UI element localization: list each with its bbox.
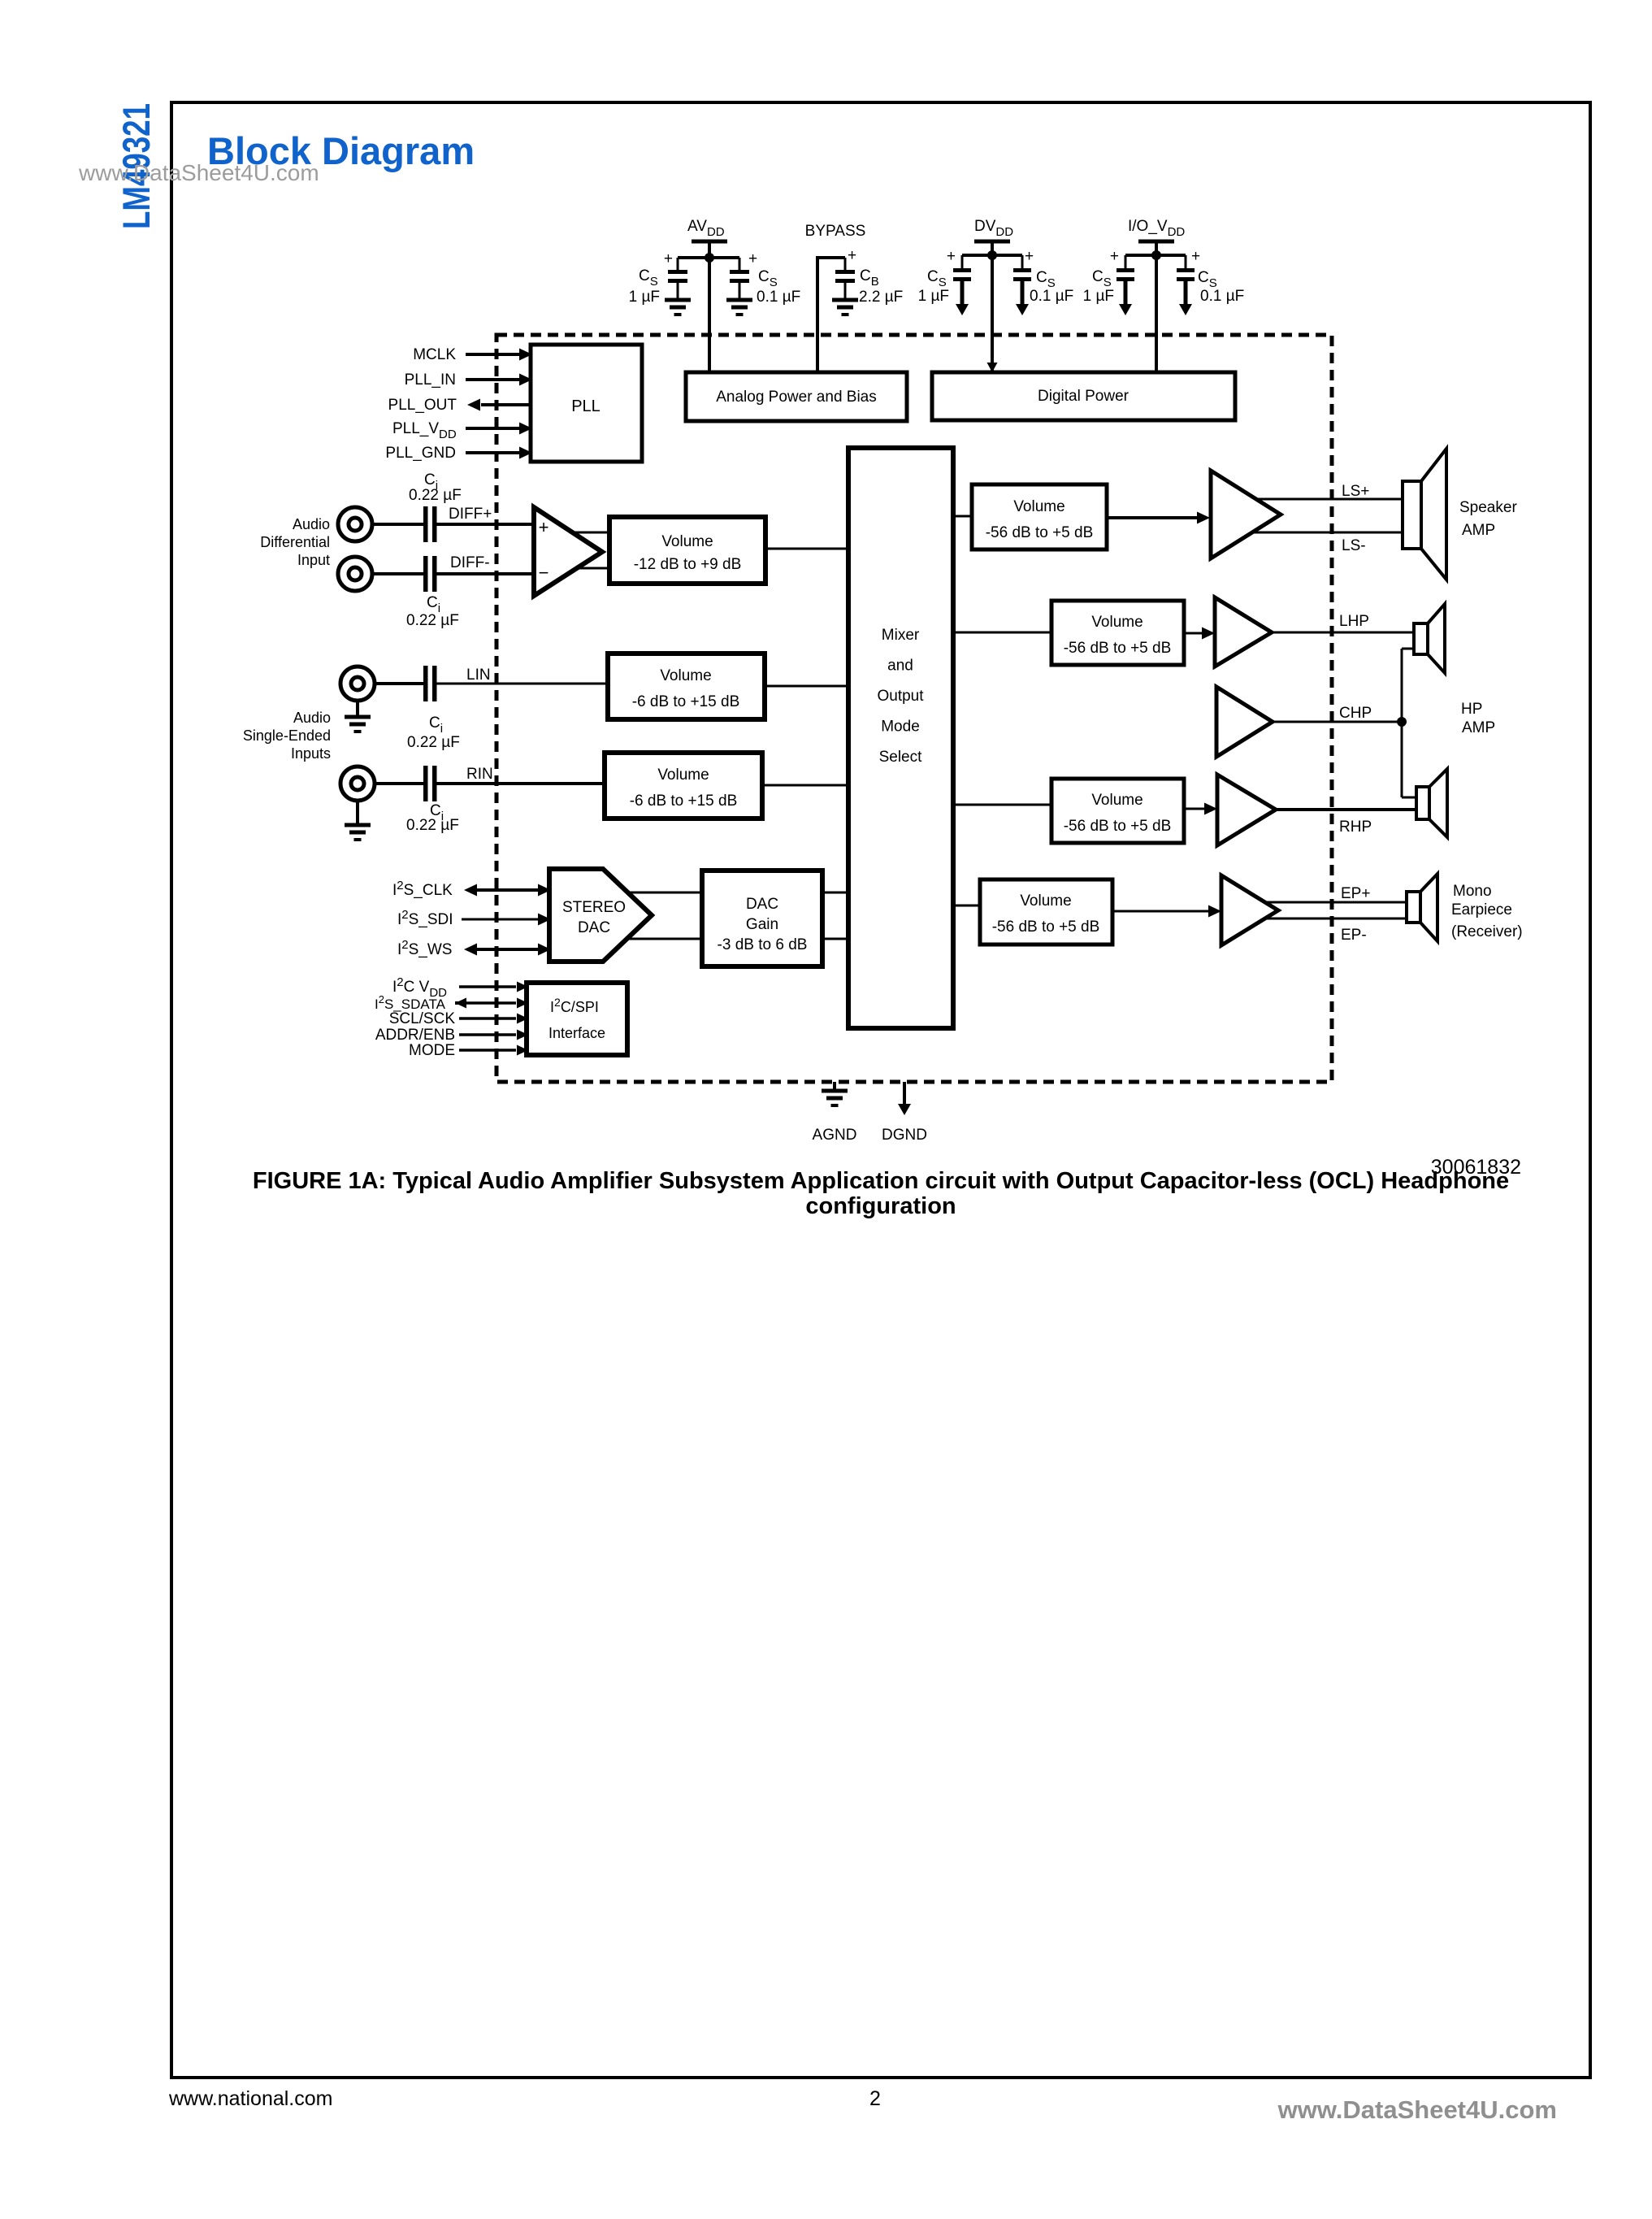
svg-text:Audio: Audio [293, 516, 330, 532]
svg-text:+: + [1110, 248, 1119, 265]
svg-text:0.1 µF: 0.1 µF [1200, 288, 1244, 305]
svg-text:2: 2 [869, 2087, 881, 2110]
svg-text:and: and [887, 658, 913, 675]
svg-text:Select: Select [879, 749, 923, 766]
svg-text:+: + [848, 247, 856, 264]
svg-text:Speaker: Speaker [1459, 499, 1517, 516]
svg-text:+: + [748, 250, 757, 267]
svg-text:HP: HP [1461, 701, 1482, 718]
svg-text:Volume: Volume [1013, 498, 1064, 515]
svg-text:Interface: Interface [548, 1025, 605, 1041]
svg-text:Volume: Volume [1020, 892, 1071, 910]
svg-text:PLL_IN: PLL_IN [405, 371, 456, 389]
svg-text:PLL_GND: PLL_GND [385, 445, 456, 462]
svg-text:Volume: Volume [661, 533, 713, 550]
svg-text:Input: Input [297, 552, 330, 568]
svg-text:Analog Power and Bias: Analog Power and Bias [716, 389, 877, 406]
svg-text:+: + [539, 517, 549, 537]
svg-text:AMP: AMP [1462, 522, 1495, 539]
svg-text:2.2 µF: 2.2 µF [859, 289, 903, 306]
svg-text:LHP: LHP [1339, 613, 1369, 630]
svg-text:LS+: LS+ [1342, 483, 1369, 500]
svg-text:0.22 µF: 0.22 µF [406, 612, 459, 629]
svg-text:Output: Output [877, 688, 924, 705]
svg-text:Audio: Audio [293, 710, 331, 726]
svg-text:Volume: Volume [657, 766, 709, 784]
svg-text:Gain: Gain [746, 916, 778, 933]
svg-text:SCL/SCK: SCL/SCK [389, 1010, 456, 1027]
svg-text:0.22 µF: 0.22 µF [409, 487, 462, 504]
svg-text:-56 dB to +5 dB: -56 dB to +5 dB [986, 524, 1094, 541]
svg-text:LIN: LIN [466, 667, 491, 684]
svg-text:1 µF: 1 µF [1083, 288, 1114, 305]
svg-text:EP+: EP+ [1341, 885, 1370, 902]
svg-text:Mixer: Mixer [882, 627, 920, 644]
svg-text:AMP: AMP [1462, 719, 1495, 736]
svg-text:1 µF: 1 µF [918, 288, 949, 305]
svg-text:+: + [664, 250, 673, 267]
svg-text:DIFF-: DIFF- [450, 554, 490, 571]
svg-text:-56 dB to +5 dB: -56 dB to +5 dB [1064, 640, 1172, 657]
svg-text:AGND: AGND [813, 1127, 857, 1144]
svg-text:FIGURE 1A: Typical Audio Ampli: FIGURE 1A: Typical Audio Amplifier Subsy… [253, 1168, 1509, 1194]
svg-text:Digital Power: Digital Power [1038, 388, 1130, 405]
svg-text:Differential: Differential [260, 534, 330, 550]
svg-text:(Receiver): (Receiver) [1451, 923, 1523, 940]
svg-text:-56 dB to +5 dB: -56 dB to +5 dB [1064, 818, 1172, 835]
svg-text:0.22 µF: 0.22 µF [407, 734, 460, 751]
svg-text:DGND: DGND [882, 1127, 927, 1144]
svg-text:Earpiece: Earpiece [1451, 901, 1512, 918]
svg-text:Volume: Volume [660, 667, 711, 684]
svg-text:0.22 µF: 0.22 µF [406, 817, 459, 834]
svg-text:DAC: DAC [746, 896, 778, 913]
svg-text:I2S_SDATA: I2S_SDATA [375, 993, 446, 1012]
svg-text:0.1 µF: 0.1 µF [757, 289, 800, 306]
svg-text:MODE: MODE [409, 1042, 455, 1059]
svg-text:EP-: EP- [1341, 927, 1367, 944]
svg-text:+: + [947, 248, 956, 265]
svg-text:−: − [539, 562, 549, 583]
svg-text:+: + [1191, 248, 1200, 265]
svg-text:DIFF+: DIFF+ [449, 506, 492, 523]
svg-text:configuration: configuration [805, 1193, 956, 1219]
svg-text:PLL_OUT: PLL_OUT [388, 397, 457, 414]
svg-text:-6 dB to +15 dB: -6 dB to +15 dB [630, 792, 738, 810]
svg-text:STEREO: STEREO [562, 899, 626, 916]
svg-text:ADDR/ENB: ADDR/ENB [375, 1027, 455, 1044]
svg-text:www.DataSheet4U.com: www.DataSheet4U.com [1277, 2095, 1557, 2124]
svg-text:-3 dB to 6 dB: -3 dB to 6 dB [718, 936, 808, 953]
svg-text:MCLK: MCLK [413, 346, 456, 363]
svg-text:-12 dB to +9 dB: -12 dB to +9 dB [634, 556, 742, 573]
svg-text:CHP: CHP [1339, 705, 1372, 722]
svg-text:Block Diagram: Block Diagram [207, 129, 475, 172]
svg-text:LS-: LS- [1342, 537, 1366, 554]
svg-text:Inputs: Inputs [291, 745, 331, 762]
svg-text:BYPASS: BYPASS [805, 223, 866, 240]
svg-text:Volume: Volume [1091, 614, 1143, 631]
svg-text:Mono: Mono [1453, 883, 1492, 900]
svg-text:0.1 µF: 0.1 µF [1030, 288, 1073, 305]
svg-text:1 µF: 1 µF [629, 289, 660, 306]
svg-text:RIN: RIN [466, 766, 493, 783]
svg-text:www.national.com: www.national.com [168, 2087, 332, 2110]
svg-text:-56 dB to +5 dB: -56 dB to +5 dB [992, 918, 1100, 936]
svg-text:Single-Ended: Single-Ended [243, 727, 331, 744]
svg-text:PLL: PLL [571, 397, 601, 415]
svg-text:-6 dB to +15 dB: -6 dB to +15 dB [632, 693, 740, 710]
svg-text:+: + [1025, 248, 1034, 265]
svg-text:RHP: RHP [1339, 819, 1372, 836]
svg-text:Mode: Mode [881, 719, 920, 736]
svg-text:Volume: Volume [1091, 792, 1143, 809]
svg-text:DAC: DAC [578, 919, 610, 936]
